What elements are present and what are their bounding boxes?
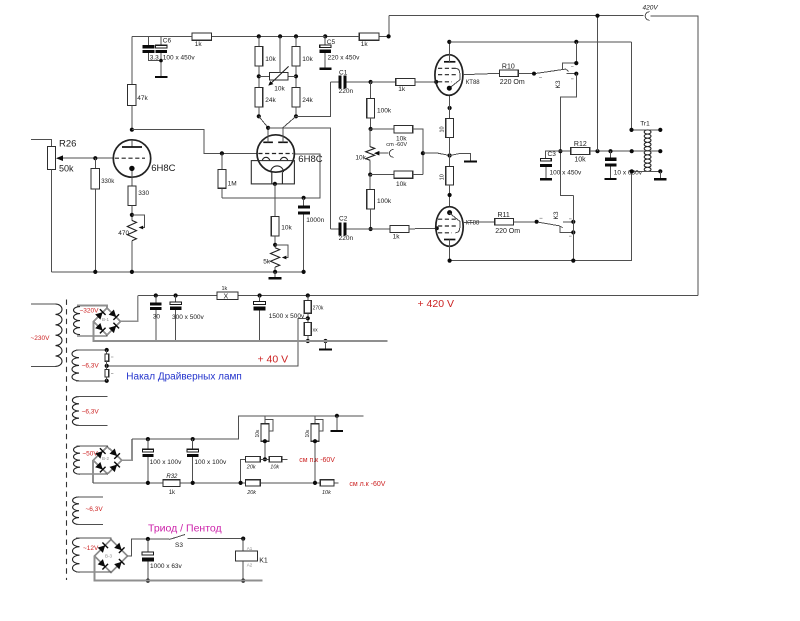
capacitor 1500x500v xyxy=(258,293,262,297)
wire bridge2 E to -60 rail xyxy=(122,439,132,460)
suppressor tie KT88 upper xyxy=(449,68,460,88)
plate leads V2 xyxy=(268,128,283,143)
svg-text:100 x 450v: 100 x 450v xyxy=(550,169,583,176)
wire right plate node to C1 xyxy=(296,82,331,116)
node dot at 1k right xyxy=(387,34,391,38)
ground on minus bus xyxy=(323,339,327,343)
svg-text:В-3: В-3 xyxy=(105,554,113,559)
capacitor C1 220n xyxy=(331,81,339,83)
node cap tap xyxy=(146,537,150,541)
svg-text:~12V: ~12V xyxy=(83,545,99,552)
svg-text:X: X xyxy=(224,294,229,301)
winding ~6,3V second xyxy=(72,397,79,426)
grid dashed V1 xyxy=(115,157,145,159)
svg-text:1500 x 500v: 1500 x 500v xyxy=(269,313,305,320)
resistor 10k in return line xyxy=(320,480,334,486)
pentode KT88 upper envelope xyxy=(435,55,463,96)
wire winding to bridge2 N xyxy=(77,445,108,448)
svg-text:100 x 450v: 100 x 450v xyxy=(163,54,196,61)
resistor humdinger lower xyxy=(105,370,109,377)
wire input top-left xyxy=(31,140,52,147)
svg-text:10 x 630v: 10 x 630v xyxy=(614,170,643,177)
heater arch V2 xyxy=(271,166,284,184)
wire B+ top rail left part xyxy=(389,15,644,17)
svg-text:~6,3V: ~6,3V xyxy=(82,362,100,369)
wire B+ top rail right part xyxy=(651,16,699,296)
svg-text:C1: C1 xyxy=(339,69,348,76)
svg-text:~320V: ~320V xyxy=(80,308,100,315)
wire winding to bridge3 S xyxy=(76,571,111,573)
winding ~6,3V heater1 xyxy=(72,350,79,381)
bridge B-2 xyxy=(93,447,122,474)
svg-text:C5: C5 xyxy=(327,39,336,46)
svg-text:10k: 10k xyxy=(574,156,586,163)
node box bottom xyxy=(273,182,277,186)
wire return line with R32 xyxy=(93,482,338,484)
svg-text:10k: 10k xyxy=(322,490,331,496)
svg-text:C3: C3 xyxy=(548,151,557,158)
svg-text:300 x 500v: 300 x 500v xyxy=(172,314,205,321)
svg-text:Триод / Пентод: Триод / Пентод xyxy=(148,523,222,535)
pentode KT88 lower envelope (mirrored) xyxy=(436,207,463,247)
resistor 1k (KT88 lower grid stopper) xyxy=(390,225,409,232)
svg-text:S3: S3 xyxy=(175,542,183,549)
svg-text:R11: R11 xyxy=(498,212,510,219)
svg-text:220 x 450v: 220 x 450v xyxy=(328,55,361,62)
switch S3 xyxy=(170,535,185,540)
capacitor 300x500v xyxy=(174,293,178,297)
capacitor 1000x63v xyxy=(147,539,149,552)
svg-text:1k: 1k xyxy=(398,86,406,93)
svg-text:K3: K3 xyxy=(553,211,560,219)
resistor 1k (KT88 upper grid stopper) xyxy=(396,78,415,85)
connector curl cm -60V xyxy=(389,150,393,158)
resistor R10 220 Om xyxy=(500,70,519,77)
resistor 1k (right, screen supply) xyxy=(359,33,379,40)
grid dashes KT88 upper xyxy=(438,68,456,82)
svg-text:+ 420 V: + 420 V xyxy=(418,298,455,310)
svg-text:В-2: В-2 xyxy=(102,456,110,461)
capacitor C6 100x450v xyxy=(160,36,162,45)
potentiometer bias trim 2 xyxy=(314,416,316,424)
potentiometer 10k balance xyxy=(259,75,296,77)
triode V1 6H8C envelope xyxy=(113,140,150,177)
svg-text:6Н8С: 6Н8С xyxy=(298,154,322,165)
svg-text:10: 10 xyxy=(440,126,446,132)
svg-text:R10: R10 xyxy=(502,63,515,70)
potentiometer bias trim 1 xyxy=(264,416,266,424)
ground Tr1 secondary xyxy=(659,171,661,178)
wire 24kR to right plate xyxy=(283,116,296,127)
svg-text:24k: 24k xyxy=(265,97,276,104)
relay K1 xyxy=(242,539,244,551)
svg-text:+ 40 V: + 40 V xyxy=(258,354,289,366)
capacitor 3.3 (film, bypass) xyxy=(147,36,149,45)
svg-text:КТ88: КТ88 xyxy=(466,80,480,86)
switch K3 upper xyxy=(532,72,536,76)
resistor 10 (lower cathode) xyxy=(446,166,454,185)
node A tube1 plate xyxy=(130,128,134,132)
capacitor 100x100v first xyxy=(146,437,150,441)
svg-text:47k: 47k xyxy=(137,95,148,102)
capacitor 100x100v second xyxy=(191,437,195,441)
winding Tr1 secondary xyxy=(648,130,651,172)
svg-text:см л.к -60V: см л.к -60V xyxy=(349,481,385,488)
winding ~6,3V third xyxy=(73,497,79,525)
winding Tr1 primary xyxy=(644,130,647,172)
svg-text:~230V: ~230V xyxy=(31,335,51,342)
svg-text:В-1: В-1 xyxy=(102,317,110,322)
wire winding to bridge3 N xyxy=(76,538,111,539)
svg-text:КТ88: КТ88 xyxy=(466,220,480,226)
triode V2 6H8C envelope (twin) xyxy=(257,135,294,172)
resistor 100k upper xyxy=(370,82,372,99)
svg-text:330: 330 xyxy=(138,190,149,197)
resistor 24k left xyxy=(255,88,263,108)
capacitor 1000n xyxy=(303,198,305,206)
wire heater1 leads xyxy=(76,350,107,381)
svg-text:1k: 1k xyxy=(169,490,176,496)
svg-text:см п.к -60V: см п.к -60V xyxy=(299,457,335,464)
svg-text:100 x 100v: 100 x 100v xyxy=(194,459,227,466)
svg-text:24k: 24k xyxy=(302,97,313,104)
wire Tr1 center tap xyxy=(632,150,648,152)
potentiometer R26 50k xyxy=(47,146,55,169)
wire bridge3 W to return xyxy=(95,556,263,581)
wiper loop 5k xyxy=(275,245,288,258)
svg-text:10k: 10k xyxy=(355,154,366,161)
svg-text:10к: 10к xyxy=(305,429,311,438)
wire cathode V2 down xyxy=(274,184,276,217)
resistor R11 220 Om xyxy=(495,219,514,226)
svg-text:100 x 100v: 100 x 100v xyxy=(150,459,183,466)
wire winding to bridge S xyxy=(77,335,107,336)
winding ~50V xyxy=(74,446,81,474)
svg-text:220 Om: 220 Om xyxy=(495,228,520,235)
resistor 1k (left, driver supply) xyxy=(192,33,212,40)
wire bridge2 W to return line xyxy=(92,460,94,483)
resistor 47k xyxy=(131,36,133,84)
svg-text:10: 10 xyxy=(440,174,446,180)
winding primary 230V xyxy=(56,304,63,366)
wire +40V tap xyxy=(107,318,308,366)
bridge B-3 xyxy=(95,540,128,573)
wire C5 node to 1k xyxy=(325,35,359,37)
resistor 20k upper xyxy=(245,456,260,462)
Tr1 secondary taps xyxy=(648,130,661,172)
ground -60 rail xyxy=(335,414,339,418)
switch K3 lower xyxy=(535,220,539,224)
svg-text:1k: 1k xyxy=(361,41,369,48)
cathode dot V1 xyxy=(129,166,134,171)
wire primary leads xyxy=(31,304,56,367)
svg-text:3.3: 3.3 xyxy=(150,54,159,61)
svg-text:220 Om: 220 Om xyxy=(500,79,525,86)
cathode arcs V2 xyxy=(262,157,287,161)
svg-text:100k: 100k xyxy=(377,198,392,205)
svg-text:10к: 10к xyxy=(255,429,261,438)
connector 420V curl xyxy=(645,12,649,21)
wire bridge W to minus bus xyxy=(94,321,388,341)
svg-text:cm -60V: cm -60V xyxy=(386,142,407,148)
svg-text:220n: 220n xyxy=(339,235,354,242)
grid dashes KT88 lower xyxy=(438,219,456,233)
resistor 10k (bias upper) xyxy=(371,128,394,130)
wire cathode V1 xyxy=(131,171,133,186)
potentiometer 10k bias (zigzag) xyxy=(369,129,371,147)
svg-text:270k: 270k xyxy=(313,306,324,312)
svg-text:A1: A1 xyxy=(247,546,253,551)
plate bar V1 xyxy=(131,140,133,147)
wire -60 rail xyxy=(132,416,363,439)
fuse X xyxy=(217,292,238,299)
ground bus xyxy=(52,271,304,273)
resistor 10k (splitter load left) xyxy=(258,36,260,46)
cathode dot KT88 lower xyxy=(447,210,452,215)
resistor 270k xyxy=(306,293,310,297)
node cathode junction xyxy=(448,153,452,157)
wire winding to bridge2 S xyxy=(77,473,108,475)
wire Tr1 bottom to lower plate line xyxy=(450,172,648,261)
wire screen KT88 lower to R11 xyxy=(463,221,495,224)
svg-text:~6,3V: ~6,3V xyxy=(86,506,104,513)
node plate KT88 lower xyxy=(448,259,452,263)
node dot C5 xyxy=(323,34,327,38)
wire mid B+ rail xyxy=(212,35,326,37)
svg-text:1000n: 1000n xyxy=(306,217,324,224)
wire C6 node to 1k and corner down to 47k xyxy=(132,35,192,37)
capacitor 30 xyxy=(154,293,158,297)
svg-text:50k: 50k xyxy=(59,164,74,174)
svg-text:10k: 10k xyxy=(396,181,407,188)
wiper loop 470 xyxy=(132,215,145,228)
cathode dot KT88 upper xyxy=(447,86,452,91)
wire leads third heater xyxy=(76,497,103,525)
resistor 10k (V2 cathode) xyxy=(271,217,279,236)
svg-text:30: 30 xyxy=(153,314,161,321)
resistor R12 10k xyxy=(560,150,570,152)
svg-text:1k: 1k xyxy=(195,41,203,48)
plate bar KT88 upper xyxy=(444,61,455,63)
svg-text:Накал Драйверных ламп: Накал Драйверных ламп xyxy=(126,372,242,383)
screen box V2 xyxy=(251,161,294,184)
transformer core xyxy=(66,300,68,581)
plate bars V2 xyxy=(263,141,288,143)
resistor 330 xyxy=(128,186,136,205)
resistor humdinger upper xyxy=(106,350,108,354)
wiper arrow bias pot xyxy=(377,152,388,154)
wire screen KT88 upper to R10 xyxy=(463,73,500,74)
svg-text:5k: 5k xyxy=(263,259,271,266)
wiper arrow R26 xyxy=(58,157,114,159)
svg-text:1k: 1k xyxy=(222,286,228,292)
wire B+ feed vertical to 1k xyxy=(379,16,389,37)
resistor 24k right xyxy=(292,88,300,108)
svg-text:C2: C2 xyxy=(339,215,348,222)
svg-text:470: 470 xyxy=(118,230,129,237)
resistor R32 1k xyxy=(163,480,180,487)
svg-text:K3: K3 xyxy=(555,80,562,88)
svg-text:1k: 1k xyxy=(393,234,401,241)
svg-text:6Н8С: 6Н8С xyxy=(151,163,175,174)
svg-text:R32: R32 xyxy=(166,474,178,480)
svg-text:K1: K1 xyxy=(259,557,268,564)
svg-text:20k: 20k xyxy=(246,465,256,471)
plate bar KT88 lower xyxy=(444,239,455,241)
svg-text:220n: 220n xyxy=(339,88,354,95)
bridge B-1 xyxy=(94,308,121,335)
wire leads xyxy=(76,397,108,426)
svg-text:10k: 10k xyxy=(274,86,285,93)
svg-text:A2: A2 xyxy=(247,563,253,568)
capacitor C2 220n xyxy=(331,228,339,230)
wire grid2 feed line xyxy=(222,154,320,198)
node plate KT88 upper xyxy=(447,40,451,44)
winding ~12V xyxy=(73,538,80,572)
wire left plate node to C2 xyxy=(268,128,331,229)
svg-text:420V: 420V xyxy=(643,5,659,12)
svg-text:10k: 10k xyxy=(302,56,313,63)
potentiometer 5k (zigzag rheostat) xyxy=(271,248,280,267)
svg-text:10k: 10k xyxy=(270,465,279,471)
resistor 10 (upper cathode) xyxy=(448,106,452,110)
grid dashed V2 xyxy=(258,153,293,155)
wire winding to bridge top xyxy=(77,305,107,307)
wire bridge3 E up to switch line xyxy=(128,539,170,556)
resistor 100k lower xyxy=(369,175,371,190)
wire V1 plate to V2 grid xyxy=(132,130,257,154)
svg-text:1M: 1M xyxy=(228,181,237,188)
svg-text:C6: C6 xyxy=(163,38,172,45)
capacitor 10x630v xyxy=(610,151,612,157)
resistor xx xyxy=(304,323,311,336)
svg-text:330k: 330k xyxy=(101,179,115,185)
capacitor C5 220x450v xyxy=(324,36,326,45)
resistor 10k (bias lower) xyxy=(369,160,371,174)
suppressor tie KT88 lower xyxy=(449,213,460,233)
wire bias network to cathodes junction xyxy=(423,153,450,155)
node dots 10k tops and pot wiper xyxy=(257,34,261,38)
svg-text:R12: R12 xyxy=(574,141,587,148)
wire plate line upper xyxy=(449,41,631,43)
svg-text:Tr1: Tr1 xyxy=(640,121,650,128)
wire B+ vertical xyxy=(597,16,599,152)
wire junction to ground xyxy=(450,153,471,160)
ground below 5k xyxy=(274,272,276,277)
resistor 10k upper xyxy=(269,456,282,462)
resistor 10k (splitter load right) xyxy=(295,36,297,46)
svg-text:10k: 10k xyxy=(265,56,276,63)
svg-text:100k: 100k xyxy=(377,107,392,114)
svg-text:xx: xx xyxy=(313,328,319,334)
wire +420V rail xyxy=(138,295,698,297)
wire 24kL to left plate xyxy=(259,116,268,128)
winding ~320V xyxy=(74,307,81,335)
wire plate line upper to Tr1 xyxy=(631,42,647,130)
node C1 right xyxy=(369,80,373,84)
svg-text:10k: 10k xyxy=(281,225,292,232)
svg-text:1000 x 63v: 1000 x 63v xyxy=(150,563,183,570)
wire R26 bottom to ground bus xyxy=(51,170,53,272)
wire upper 20k/10k row xyxy=(241,459,288,483)
svg-text:~6,3V: ~6,3V xyxy=(82,408,100,415)
resistor 20k in return line xyxy=(245,480,260,486)
potentiometer 470 (zigzag rheostat) xyxy=(127,220,136,240)
svg-text:R26: R26 xyxy=(59,139,76,150)
resistor 1M xyxy=(221,153,223,169)
svg-text:20k: 20k xyxy=(246,490,256,496)
wire bridge E to rail xyxy=(121,296,138,322)
resistor 330k xyxy=(93,156,97,160)
